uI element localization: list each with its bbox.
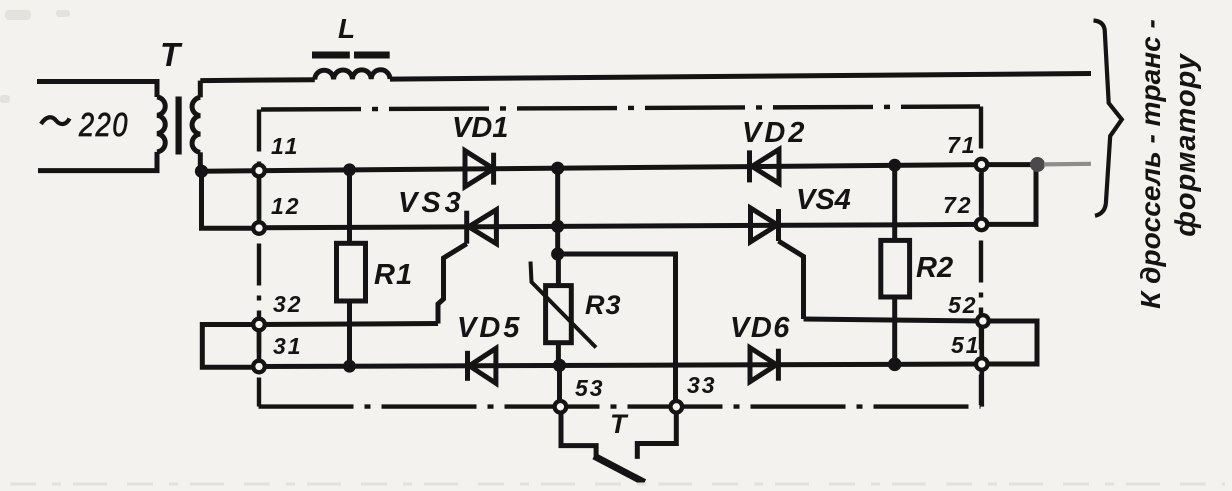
wire: rail 11-71 <box>202 165 982 172</box>
wire: VS4 gate to node 52 <box>804 319 984 321</box>
wire: mains primary bottom lead <box>38 152 157 171</box>
wire: link 52-51 external <box>983 321 1037 364</box>
svg-text:VD5: VD5 <box>457 312 522 344</box>
terminal node 72 <box>976 219 988 231</box>
wire: link junction to node 12 <box>202 171 260 228</box>
svg-text:R2: R2 <box>916 252 953 284</box>
svg-text:T: T <box>610 409 629 439</box>
junction dot: R2 bottom on rail 31-51 <box>888 358 902 372</box>
junction dot: output gray blob <box>1030 157 1045 172</box>
svg-text:52: 52 <box>948 292 978 318</box>
thyristor VS3 gate <box>438 244 467 324</box>
svg-text:220: 220 <box>78 106 129 143</box>
junction dot: R1 bottom <box>343 360 356 373</box>
enclosure dash-dot frame <box>259 107 982 407</box>
svg-text:R3: R3 <box>585 290 622 320</box>
inductor L core bars <box>312 52 350 59</box>
svg-text:71: 71 <box>947 132 977 158</box>
junction dot: R1 top <box>343 163 356 176</box>
wire: rail 12-72 <box>259 224 982 227</box>
wire: rail 31-51 <box>259 364 982 367</box>
terminal node 12 <box>253 222 265 234</box>
thyristor VS4 <box>751 208 778 242</box>
svg-text:VD2: VD2 <box>742 117 807 149</box>
wire: R3 bypass loop <box>558 254 676 400</box>
svg-text:R1: R1 <box>374 259 413 291</box>
resistor R1 body <box>347 170 352 244</box>
wire: link 32-31 external <box>202 325 259 368</box>
wire: node 32 to VS3 gate <box>259 324 438 325</box>
wire: mains primary top lead <box>37 82 157 98</box>
thyristor VS4 gate <box>779 241 804 319</box>
terminal node 32 <box>253 319 265 331</box>
terminal node 53 <box>555 401 567 413</box>
terminal node 31 <box>253 361 265 373</box>
solid links between terminal pairs <box>259 160 982 407</box>
svg-text:L: L <box>338 13 355 44</box>
svg-text:33: 33 <box>687 372 717 398</box>
junction dot: mid vertical rail 11 <box>551 162 564 175</box>
terminal node 33 <box>671 401 683 413</box>
diode VD2 <box>752 149 779 183</box>
wire: secondary top to top rail <box>198 81 203 98</box>
svg-text:T: T <box>160 36 183 73</box>
svg-text:32: 32 <box>273 291 303 317</box>
junction dot: secondary-node11 <box>195 165 208 178</box>
transformer T secondary winding <box>192 97 200 152</box>
resistor R3 body <box>556 254 561 286</box>
wire: link 72-71 external <box>982 165 1037 225</box>
svg-text:11: 11 <box>271 133 300 159</box>
wire: top rail right of L <box>390 74 1091 80</box>
junction dot: R3 top bypass <box>551 247 564 260</box>
junction dot: R2 top <box>888 159 901 172</box>
svg-text:форматору: форматору <box>1170 52 1202 236</box>
svg-text:VD1: VD1 <box>452 112 508 144</box>
resistor R3 varistor stroke <box>531 262 597 348</box>
resistor R2 body <box>892 165 897 240</box>
switch T blade <box>561 414 596 458</box>
terminal node 71 <box>976 159 988 171</box>
transformer T core bar <box>176 97 182 155</box>
wire: top rail with inductor L <box>200 77 314 83</box>
inductor L winding <box>315 70 390 80</box>
svg-text:72: 72 <box>943 192 973 218</box>
svg-text:31: 31 <box>273 333 303 359</box>
junction dot: R3 bottom on rail 31-51 <box>553 359 566 372</box>
terminal node 51 <box>976 358 988 370</box>
paper smudges <box>0 10 70 103</box>
svg-text:53: 53 <box>575 375 605 401</box>
junction dot: mid vertical rail 12 <box>551 220 564 233</box>
svg-text:VD6: VD6 <box>730 312 791 344</box>
svg-text:12: 12 <box>271 193 301 219</box>
svg-text:51: 51 <box>951 332 981 358</box>
transformer T primary winding <box>157 97 165 152</box>
thyristor VS3 <box>469 210 497 244</box>
wire: bypass below node 33 to switch <box>637 414 676 459</box>
wire: rail 11-71 solid extension right of node 71 <box>982 162 1039 167</box>
label ~ of mains <box>41 117 70 124</box>
wire: faded output lead <box>1044 162 1091 167</box>
diode VD6 <box>750 348 777 382</box>
diode VD1 <box>465 151 494 187</box>
wire: secondary bottom to junction <box>198 152 203 171</box>
terminal node 52 <box>977 315 989 327</box>
wire: mid vertical link <box>555 168 560 254</box>
svg-text:VS4: VS4 <box>796 184 851 216</box>
svg-text:VS3: VS3 <box>398 187 465 219</box>
diode VD5 <box>469 348 496 383</box>
terminal node 11 <box>253 165 265 177</box>
brace to output <box>1094 21 1122 216</box>
svg-text:К дроссель - транс -: К дроссель - транс - <box>1135 19 1166 309</box>
